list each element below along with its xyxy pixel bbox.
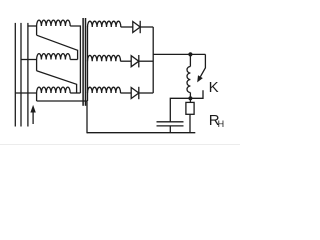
diode VD1 [133,21,140,33]
primary winding W3 [37,87,71,93]
wire VD3 to rail [139,92,153,94]
contact K upper terminal [200,54,205,76]
secondary winding S2 [88,55,121,61]
secondary neutral riser [87,27,89,102]
wire W2 left stub [36,60,38,71]
node top of relay coil [188,52,192,56]
primary winding W2 [37,54,71,60]
wire capacitor to bottom rail [169,126,171,133]
wire rail to relay branch [153,53,205,55]
node bottom of relay coil [188,96,192,100]
neutral drop wire [86,101,88,133]
wire node to resistor [189,98,191,102]
transformer core [83,18,85,106]
capacitor C [157,122,184,126]
wire bottom return [37,100,87,102]
supply phase line 2 [20,23,22,127]
secondary winding S1 [88,21,121,27]
wire tap phase2 to winding W2 [21,59,37,61]
wire W1 left stub [36,26,38,35]
wire W3 left stub [36,93,38,101]
relay coil K [187,67,190,93]
supply phase line 3 [27,23,29,127]
diode VD3 [131,87,139,99]
supply direction arrow [30,105,35,124]
wire node to capacitor [170,98,190,122]
svg-text:K: K [209,79,219,96]
secondary winding S3 [88,87,121,93]
wire S3 to diode VD3 [120,92,131,94]
primary winding W1 [37,20,71,26]
wire tap phase3 to winding W1 [28,25,37,27]
bottom return rail [87,132,195,134]
wire tap phase1 to winding W3 [15,92,36,94]
wire VD2 to rail [139,60,153,62]
wire dot to coil [189,54,191,66]
DC positive rail [152,27,154,93]
diode VD2 [131,55,139,67]
wire diagonal W2 to W3 [37,71,77,93]
wire coil to lower node [189,93,191,99]
wire W3 right end [70,92,80,94]
wire S2 to diode VD2 [120,60,131,62]
svg-text:H: H [218,119,225,129]
wire resistor to bottom rail [189,114,191,132]
resistor RH [186,102,194,114]
wire W2 right end [70,59,77,61]
wire VD1 to rail [140,26,153,28]
supply phase line 1 [14,23,16,127]
faint page rule [0,144,240,146]
wire diagonal W1 to W2 [37,35,78,59]
contact K lower terminal [190,90,203,98]
wire W1 right end [70,26,80,93]
contact K arrow [197,75,203,82]
wire S1 to diode VD1 [121,26,133,28]
